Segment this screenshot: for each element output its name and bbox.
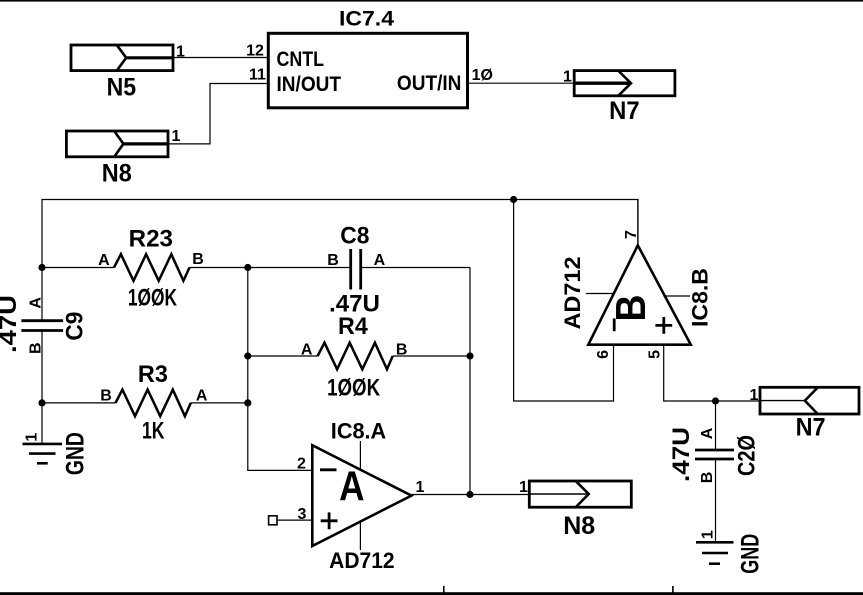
svg-text:1K: 1K bbox=[142, 417, 165, 444]
svg-text:7: 7 bbox=[623, 230, 640, 239]
ground GND right bbox=[696, 542, 734, 563]
svg-text:IC7.4: IC7.4 bbox=[339, 8, 394, 31]
flag N5 box bbox=[71, 45, 173, 71]
svg-text:1: 1 bbox=[172, 128, 181, 145]
wire N8 to pin 11 bbox=[168, 84, 268, 144]
svg-text:R23: R23 bbox=[129, 225, 173, 252]
svg-text:.47U: .47U bbox=[0, 295, 22, 353]
svg-text:GND: GND bbox=[62, 432, 90, 475]
svg-text:.47U: .47U bbox=[668, 427, 695, 482]
wire top rail bbox=[42, 200, 638, 268]
node R4-B junction bbox=[466, 352, 473, 359]
node R4-A junction bbox=[244, 352, 251, 359]
svg-text:1: 1 bbox=[700, 530, 717, 539]
capacitor C8 bbox=[248, 249, 470, 290]
flag N7 top box bbox=[574, 71, 675, 96]
svg-text:1: 1 bbox=[23, 433, 40, 442]
svg-text:IC8.A: IC8.A bbox=[331, 419, 386, 444]
svg-text:A: A bbox=[98, 252, 110, 269]
node R23-B column junction bbox=[244, 264, 251, 271]
op-amp U8B value tick bbox=[586, 293, 613, 295]
op-amp U8B plus bbox=[655, 317, 672, 334]
op-amp U8A plus bbox=[321, 512, 338, 529]
wire N5 to pin 12 bbox=[173, 57, 268, 59]
svg-text:OUT/IN: OUT/IN bbox=[397, 72, 462, 95]
svg-text:5: 5 bbox=[647, 350, 664, 359]
svg-text:AD712: AD712 bbox=[329, 548, 395, 573]
resistor R3 bbox=[42, 390, 248, 417]
svg-text:A: A bbox=[699, 427, 716, 439]
svg-text:N7: N7 bbox=[796, 414, 826, 442]
op-amp U8A minus bbox=[320, 468, 337, 471]
svg-text:B: B bbox=[396, 341, 408, 358]
svg-text:6: 6 bbox=[595, 350, 612, 359]
svg-text:B: B bbox=[327, 252, 339, 269]
op-amp U8B refdes tick bbox=[663, 295, 690, 297]
wire pin 10 to N7 bbox=[468, 82, 574, 84]
svg-text:IN/OUT: IN/OUT bbox=[277, 73, 342, 96]
svg-text:B: B bbox=[28, 342, 45, 354]
wire op-amp A output to N8 bbox=[411, 494, 529, 496]
wire op-amp B pin 5 to C20/N7 bbox=[664, 345, 760, 401]
svg-text:C2Ø: C2Ø bbox=[734, 435, 761, 476]
svg-text:N8: N8 bbox=[102, 160, 132, 188]
svg-text:IC8.B: IC8.B bbox=[687, 268, 712, 327]
wire right column bbox=[469, 268, 471, 495]
svg-text:A: A bbox=[374, 252, 386, 269]
svg-text:A: A bbox=[301, 341, 313, 358]
svg-text:1ØØK: 1ØØK bbox=[327, 374, 381, 401]
svg-text:11: 11 bbox=[249, 67, 266, 84]
svg-text:GND: GND bbox=[736, 534, 764, 574]
op-amp U8A pin 3 stub with open square bbox=[269, 516, 313, 525]
svg-text:1Ø: 1Ø bbox=[472, 67, 493, 84]
svg-text:B: B bbox=[192, 251, 204, 268]
svg-text:N8: N8 bbox=[563, 512, 595, 540]
wire op-amp B output to rail bbox=[637, 200, 639, 246]
node output junction bbox=[466, 491, 473, 498]
svg-text:1: 1 bbox=[415, 479, 424, 496]
svg-text:R4: R4 bbox=[338, 313, 368, 340]
svg-text:A: A bbox=[196, 388, 208, 405]
IC U7 body bbox=[268, 33, 467, 108]
svg-text:1: 1 bbox=[563, 69, 572, 86]
svg-text:B: B bbox=[100, 388, 112, 405]
svg-text:C8: C8 bbox=[340, 222, 369, 249]
op-amp U8A triangle bbox=[312, 445, 411, 546]
flag N8 top box bbox=[66, 131, 168, 157]
svg-text:1: 1 bbox=[519, 479, 528, 496]
resistor R23 bbox=[42, 254, 248, 281]
node rail junction bbox=[510, 196, 517, 203]
op-amp U8B minus bbox=[613, 318, 616, 331]
svg-text:C9: C9 bbox=[61, 312, 88, 341]
flag N7 bottom box bbox=[760, 387, 859, 414]
svg-text:CNTL: CNTL bbox=[277, 48, 325, 71]
op-amp U8A refdes tick bbox=[359, 441, 361, 470]
capacitor C9 bbox=[21, 268, 63, 403]
op-amp U8B triangle bbox=[588, 245, 691, 344]
svg-text:B: B bbox=[607, 295, 654, 322]
svg-text:B: B bbox=[699, 472, 716, 484]
svg-text:R3: R3 bbox=[138, 361, 168, 388]
svg-text:A: A bbox=[28, 297, 45, 309]
svg-text:N7: N7 bbox=[609, 97, 640, 125]
resistor R4 bbox=[248, 343, 470, 370]
capacitor C20 bbox=[695, 401, 734, 542]
node R3-A column junction bbox=[244, 399, 251, 406]
node R3-B GND junction bbox=[38, 399, 45, 406]
svg-text:1ØØK: 1ØØK bbox=[128, 285, 178, 312]
flag N8 bottom box bbox=[529, 481, 631, 507]
wire center column to op-amp A pin 2 bbox=[248, 268, 312, 471]
svg-text:A: A bbox=[339, 463, 364, 510]
node R23-A C9 junction bbox=[38, 264, 45, 271]
svg-text:2: 2 bbox=[297, 456, 306, 473]
ground GND left bbox=[23, 403, 63, 463]
wire rail to op-amp B pin 6 bbox=[514, 200, 614, 402]
node pin5 C20 junction bbox=[712, 397, 719, 404]
svg-text:1: 1 bbox=[749, 387, 758, 404]
op-amp U8A value tick bbox=[359, 522, 361, 551]
svg-text:AD712: AD712 bbox=[560, 257, 585, 330]
svg-text:N5: N5 bbox=[107, 73, 137, 101]
